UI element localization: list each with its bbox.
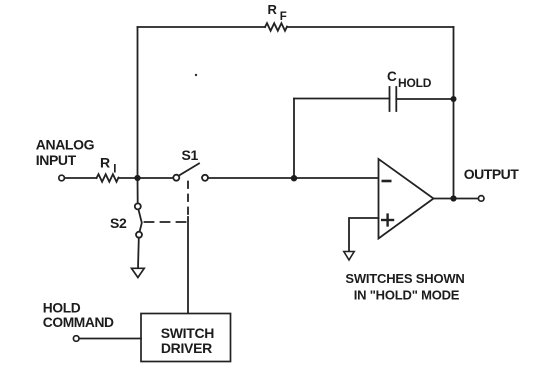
svg-text:S1: S1 [182, 147, 199, 163]
label RF [268, 2, 287, 23]
terminal analog input [59, 175, 65, 181]
node input junction [134, 175, 140, 181]
svg-text:SWITCHES SHOWN: SWITCHES SHOWN [345, 271, 464, 286]
op-amp U1 [379, 159, 434, 239]
label HOLD COMMAND [43, 300, 114, 330]
switch S1 [173, 164, 208, 181]
op-amp minus sign [383, 180, 390, 183]
svg-text:F: F [280, 11, 287, 23]
terminal hold command [73, 336, 79, 342]
svg-text:I: I [113, 163, 116, 175]
wire noninverting input [349, 218, 379, 252]
ground S2 [132, 268, 145, 277]
svg-text:SWITCH: SWITCH [161, 325, 215, 341]
svg-text:S2: S2 [110, 215, 127, 231]
svg-text:COMMAND: COMMAND [43, 315, 114, 330]
wire top right segment [287, 26, 454, 28]
svg-text:C: C [387, 69, 397, 84]
svg-text:HOLD: HOLD [398, 76, 432, 90]
label SWITCH DRIVER [161, 325, 215, 356]
resistor RF [265, 23, 287, 31]
svg-text:INPUT: INPUT [36, 152, 77, 168]
wire hold command [79, 338, 141, 340]
svg-text:IN "HOLD" MODE: IN "HOLD" MODE [354, 287, 460, 302]
wire inverting node vertical [293, 99, 295, 179]
svg-text:ANALOG: ANALOG [36, 137, 95, 153]
op-amp plus sign [382, 215, 393, 226]
wire analog input [65, 177, 97, 179]
node output junction [450, 195, 456, 201]
wire top left segment [138, 26, 266, 28]
ground op-amp [344, 252, 354, 261]
wire S2 vertical [137, 178, 139, 203]
dashed link S1 vertical [187, 182, 189, 218]
node inverting input junction [291, 175, 297, 181]
switch S2 [135, 203, 142, 237]
capacitor CHOLD [390, 87, 397, 111]
label SWITCHES SHOWN IN HOLD MODE [345, 271, 464, 303]
wire left vertical [137, 27, 139, 178]
wire S2 to ground [137, 238, 140, 269]
wire node to S1 [119, 177, 174, 179]
svg-text:OUTPUT: OUTPUT [464, 166, 520, 182]
wire to capacitor [294, 98, 390, 100]
svg-text:R: R [100, 155, 110, 171]
wire op-amp output [434, 198, 479, 200]
resistor RI [97, 174, 119, 182]
wire S1 to op-amp [208, 177, 379, 179]
dashed link S2 horizontal [145, 221, 189, 223]
node capacitor junction [451, 96, 457, 102]
svg-text:HOLD: HOLD [43, 300, 81, 315]
wire switch driver control [187, 217, 189, 314]
label ANALOG INPUT [36, 137, 95, 168]
label CHOLD [387, 69, 432, 90]
terminal output [478, 196, 484, 202]
svg-text:DRIVER: DRIVER [161, 340, 212, 356]
svg-text:R: R [268, 2, 278, 17]
wire capacitor to right vertical [396, 98, 453, 100]
label RI [100, 155, 116, 176]
switch driver box [141, 314, 231, 362]
wire right vertical [453, 27, 455, 199]
